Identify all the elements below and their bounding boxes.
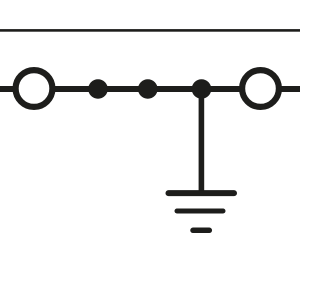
wire (main horizontal conductor) <box>0 86 300 92</box>
ground bar 3 (bottom, shortest) <box>193 228 209 234</box>
busbar rail (top) <box>0 29 300 32</box>
junction dot 3 (node to ground) <box>192 79 212 99</box>
junction dot 1 <box>88 79 108 99</box>
ground bar 1 (top, widest) <box>169 190 235 196</box>
ground bar 2 (middle) <box>177 209 223 214</box>
terminal circle left <box>16 70 53 107</box>
junction dot 2 <box>138 79 158 99</box>
wire (vertical, to ground) <box>199 89 205 193</box>
terminal circle right <box>242 70 279 107</box>
